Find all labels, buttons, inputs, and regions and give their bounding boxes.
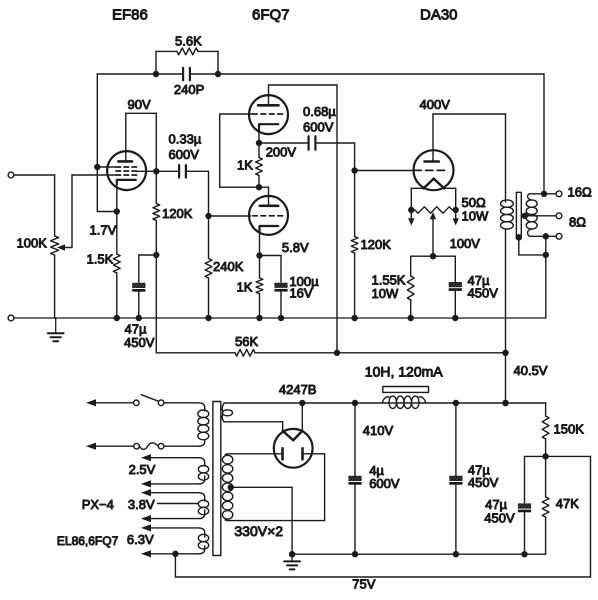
svg-text:5.6K: 5.6K: [175, 33, 202, 48]
svg-text:75V: 75V: [352, 576, 375, 591]
svg-text:400V: 400V: [420, 97, 451, 112]
svg-text:1K: 1K: [237, 279, 253, 294]
svg-text:410V: 410V: [363, 423, 394, 438]
svg-text:0.33µ: 0.33µ: [169, 131, 202, 146]
svg-text:47K: 47K: [556, 496, 579, 511]
svg-text:1.5K: 1.5K: [87, 251, 114, 266]
svg-text:0.68µ: 0.68µ: [303, 104, 336, 119]
svg-text:90V: 90V: [128, 97, 151, 112]
svg-text:240K: 240K: [213, 259, 244, 274]
svg-text:450V: 450V: [124, 335, 155, 350]
svg-text:240P: 240P: [174, 82, 204, 97]
svg-text:600V: 600V: [169, 147, 200, 162]
svg-text:450V: 450V: [468, 475, 499, 490]
svg-text:600V: 600V: [369, 476, 400, 491]
svg-text:120K: 120K: [361, 237, 392, 252]
svg-text:16Ω: 16Ω: [568, 184, 592, 199]
svg-text:10W: 10W: [372, 286, 399, 301]
svg-text:600V: 600V: [303, 119, 334, 134]
svg-text:4247B: 4247B: [279, 382, 317, 397]
svg-text:330V×2: 330V×2: [234, 523, 283, 539]
svg-text:450V: 450V: [468, 285, 499, 300]
svg-text:100K: 100K: [17, 235, 48, 250]
svg-text:EF86: EF86: [112, 7, 148, 24]
svg-text:6FQ7: 6FQ7: [252, 7, 290, 24]
svg-text:120K: 120K: [162, 206, 193, 221]
svg-text:6.3V: 6.3V: [127, 532, 154, 547]
svg-text:10W: 10W: [462, 208, 489, 223]
svg-text:2.5V: 2.5V: [129, 462, 156, 477]
svg-text:3.8V: 3.8V: [128, 497, 155, 512]
svg-text:1.7V: 1.7V: [90, 222, 117, 237]
svg-text:1K: 1K: [237, 157, 253, 172]
svg-text:EL86,6FQ7: EL86,6FQ7: [57, 534, 119, 548]
svg-text:DA30: DA30: [420, 7, 458, 24]
svg-text:PX−4: PX−4: [82, 497, 114, 512]
svg-text:150K: 150K: [554, 421, 585, 436]
svg-text:16V: 16V: [289, 285, 312, 300]
svg-text:450V: 450V: [484, 510, 515, 525]
svg-text:56K: 56K: [235, 334, 258, 349]
svg-text:5.8V: 5.8V: [282, 240, 309, 255]
svg-text:40.5V: 40.5V: [514, 363, 548, 378]
svg-text:100V: 100V: [450, 236, 481, 251]
svg-text:10H, 120mA: 10H, 120mA: [365, 363, 443, 379]
svg-text:8Ω: 8Ω: [569, 214, 586, 229]
svg-text:200V: 200V: [266, 145, 297, 160]
